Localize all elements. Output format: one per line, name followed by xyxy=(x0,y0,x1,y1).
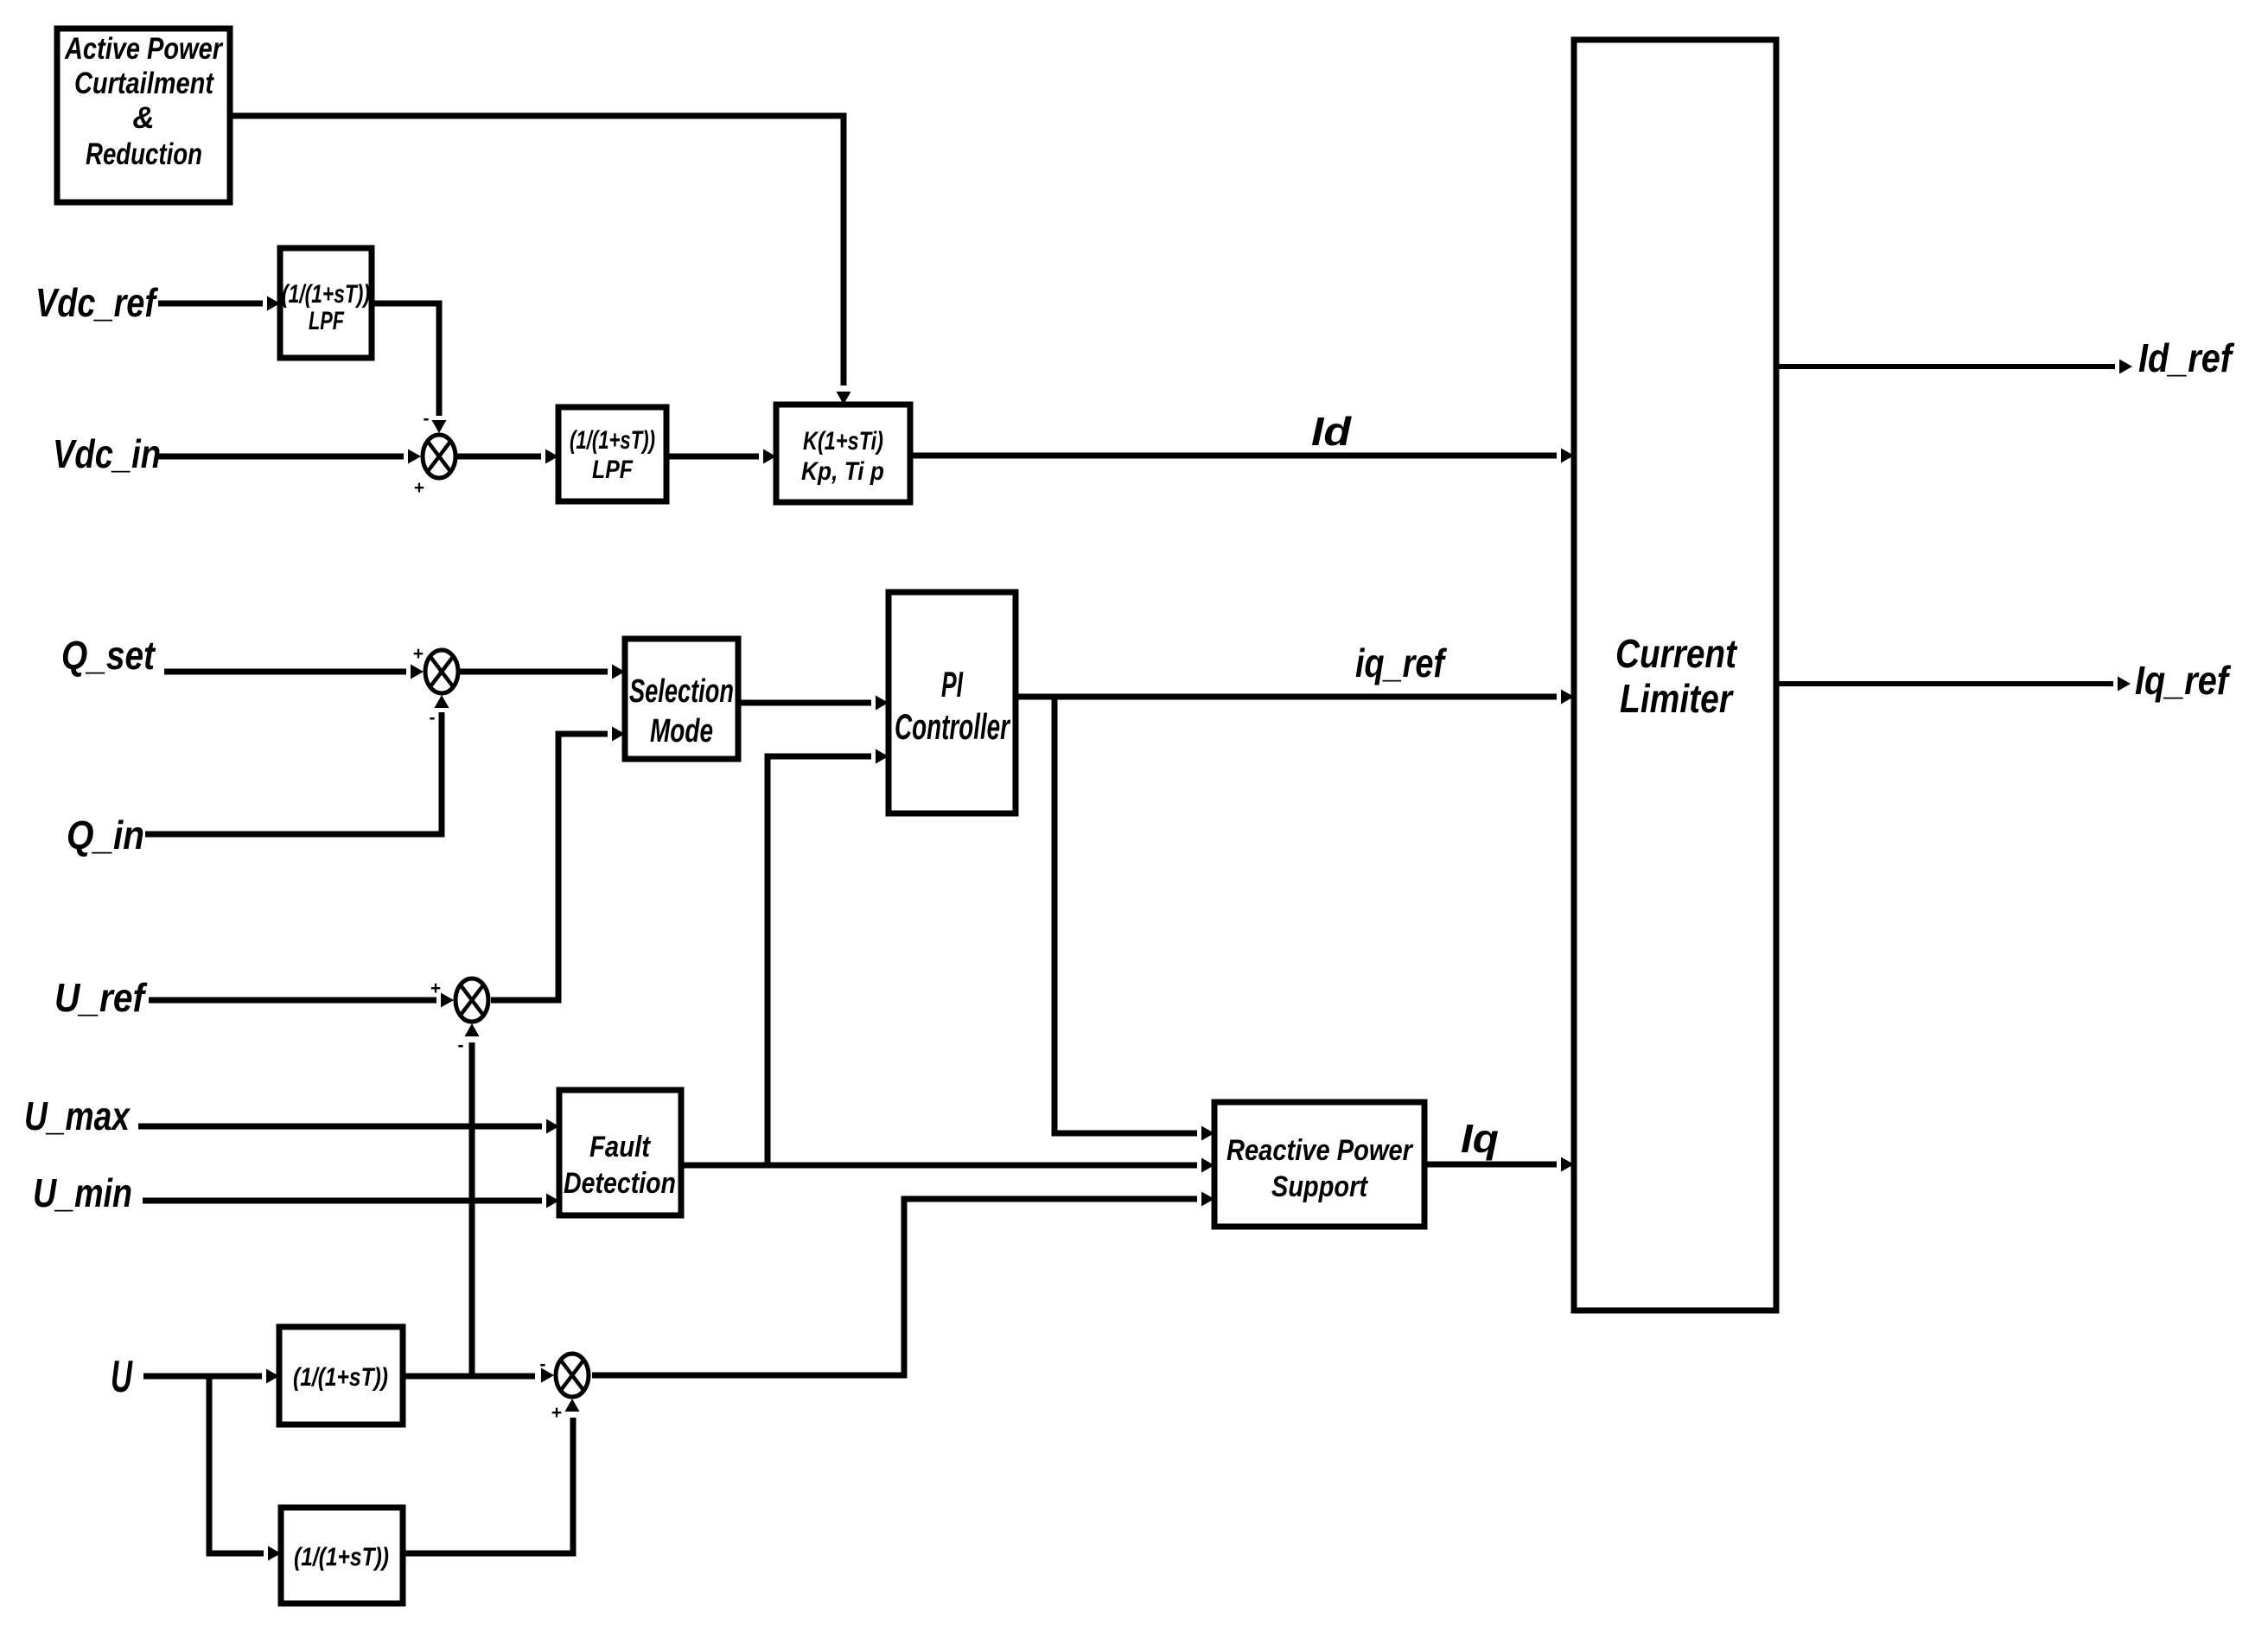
summing junction S2 (Q) xyxy=(413,644,458,728)
wire: Active Power block output to K(1+sTi) block top xyxy=(230,116,851,405)
block: Fault Detection xyxy=(559,1090,681,1215)
svg-text:(1/(1+sT)): (1/(1+sT)) xyxy=(570,426,655,455)
svg-text:LPF: LPF xyxy=(309,307,344,335)
block: U filter upper (1/(1+sT)) xyxy=(279,1327,403,1425)
svg-text:Reactive Power: Reactive Power xyxy=(1226,1134,1414,1167)
block: LPF2 (1/(1+sT)) xyxy=(558,407,666,501)
svg-text:U: U xyxy=(111,1352,133,1402)
block: LPF1 (1/(1+sT)) xyxy=(280,248,372,358)
wire: Current Limiter output Iq_ref xyxy=(1776,677,2131,692)
svg-text:Detection: Detection xyxy=(564,1167,676,1200)
svg-text:Iq_ref: Iq_ref xyxy=(2135,658,2232,703)
svg-text:-: - xyxy=(430,708,436,728)
svg-text:Reduction: Reduction xyxy=(86,137,202,171)
svg-text:Q_set: Q_set xyxy=(61,633,156,678)
svg-text:Controller: Controller xyxy=(895,706,1011,747)
block: PI regulator K(1+sTi) Kp, Ti p xyxy=(776,405,910,502)
wire: lower filter output up to summing junction S4 xyxy=(403,1399,580,1553)
block: Reactive Power Support xyxy=(1214,1102,1424,1227)
svg-text:Iq: Iq xyxy=(1461,1116,1499,1161)
summing junction S3 (U_ref) xyxy=(430,979,488,1055)
wire: Current Limiter output Id_ref xyxy=(1776,360,2132,374)
block: PI Controller xyxy=(889,592,1016,813)
wire: U filtered up to summing junction S3 xyxy=(465,1023,480,1376)
wire: Q_in up to summing junction S2 xyxy=(145,695,449,834)
svg-text:Limiter: Limiter xyxy=(1620,676,1734,721)
svg-text:(1/(1+sT)): (1/(1+sT)) xyxy=(282,280,370,309)
wire: Reactive Power Support output Iq to Current Limiter xyxy=(1424,1157,1574,1172)
block: Current Limiter xyxy=(1574,40,1776,1310)
svg-text:+: + xyxy=(551,1403,562,1423)
wire: U branch down to lower filter xyxy=(209,1376,281,1561)
svg-text:LPF: LPF xyxy=(592,456,634,484)
svg-text:+: + xyxy=(413,644,424,664)
wire: Fault Detection output to Reactive Power Support input 2 xyxy=(681,1158,1214,1173)
block: Active Power Curtailment & Reduction xyxy=(57,29,230,202)
svg-text:Id_ref: Id_ref xyxy=(2138,335,2235,380)
svg-text:U_ref: U_ref xyxy=(54,975,148,1020)
wire: U_min to Fault Detection xyxy=(143,1194,559,1208)
summing junction S1 (Vdc) xyxy=(414,409,456,498)
wire: S1 to LPF2 xyxy=(457,449,558,464)
wire: U lower path up to Reactive Power Support input 3 xyxy=(592,1192,1214,1376)
svg-text:Fault: Fault xyxy=(589,1131,651,1163)
svg-text:Q_in: Q_in xyxy=(67,813,144,857)
block: Selection Mode xyxy=(625,639,738,759)
svg-text:Kp, Ti p: Kp, Ti p xyxy=(801,457,884,486)
svg-text:(1/(1+sT)): (1/(1+sT)) xyxy=(293,1363,388,1392)
svg-text:Active Power: Active Power xyxy=(64,32,224,66)
wire: U to upper filter xyxy=(143,1369,279,1384)
wire: LPF2 to K block xyxy=(666,449,776,464)
svg-text:Vdc_in: Vdc_in xyxy=(53,431,161,476)
wire: S3 output up to Selection Mode input 2 xyxy=(491,727,625,1001)
wire: PI Controller output iq_ref to Current Limiter xyxy=(1016,690,1574,704)
wire: U_max to Fault Detection xyxy=(138,1119,559,1134)
svg-text:-: - xyxy=(540,1355,546,1374)
wire: Vdc_ref to LPF1 xyxy=(158,296,280,311)
wire: K block output Id to Current Limiter xyxy=(910,449,1574,463)
svg-text:+: + xyxy=(414,478,424,498)
svg-text:K(1+sTi): K(1+sTi) xyxy=(803,427,883,456)
svg-text:(1/(1+sT)): (1/(1+sT)) xyxy=(294,1543,389,1571)
svg-text:&: & xyxy=(132,101,154,135)
svg-text:-: - xyxy=(458,1036,464,1055)
svg-text:Curtailment: Curtailment xyxy=(74,67,214,100)
wire: S2 to Selection Mode xyxy=(460,665,625,679)
wire: Selection Mode to PI Controller xyxy=(738,696,889,711)
svg-text:-: - xyxy=(424,409,430,429)
svg-text:PI: PI xyxy=(941,664,964,704)
svg-text:Current: Current xyxy=(1615,631,1737,676)
wire: LPF1 output down to summing junction S1 xyxy=(372,303,447,433)
svg-text:Support: Support xyxy=(1271,1170,1368,1203)
wire: U_ref to summing junction S3 xyxy=(149,993,454,1008)
svg-text:Selection: Selection xyxy=(629,673,734,710)
svg-text:Vdc_ref: Vdc_ref xyxy=(35,280,159,325)
block: U filter lower (1/(1+sT)) xyxy=(281,1508,403,1603)
svg-text:iq_ref: iq_ref xyxy=(1355,641,1448,685)
svg-text:U_max: U_max xyxy=(24,1093,131,1138)
wire: PI output branch down to Reactive Power Support input 1 xyxy=(1054,697,1214,1141)
svg-text:Mode: Mode xyxy=(650,713,713,749)
svg-text:Id: Id xyxy=(1311,409,1352,454)
summing junction S4 (U fast/slow) xyxy=(540,1354,589,1423)
wire: Q_set to summing junction S2 xyxy=(164,665,424,679)
wire: upper filter output to summing junction S4 xyxy=(403,1368,554,1383)
wire: Fault Detection output up to PI Controller input 2 xyxy=(768,749,889,1166)
svg-text:U_min: U_min xyxy=(33,1170,132,1215)
wire: Vdc_in to summing junction S1 xyxy=(156,449,421,464)
svg-text:+: + xyxy=(430,979,441,998)
